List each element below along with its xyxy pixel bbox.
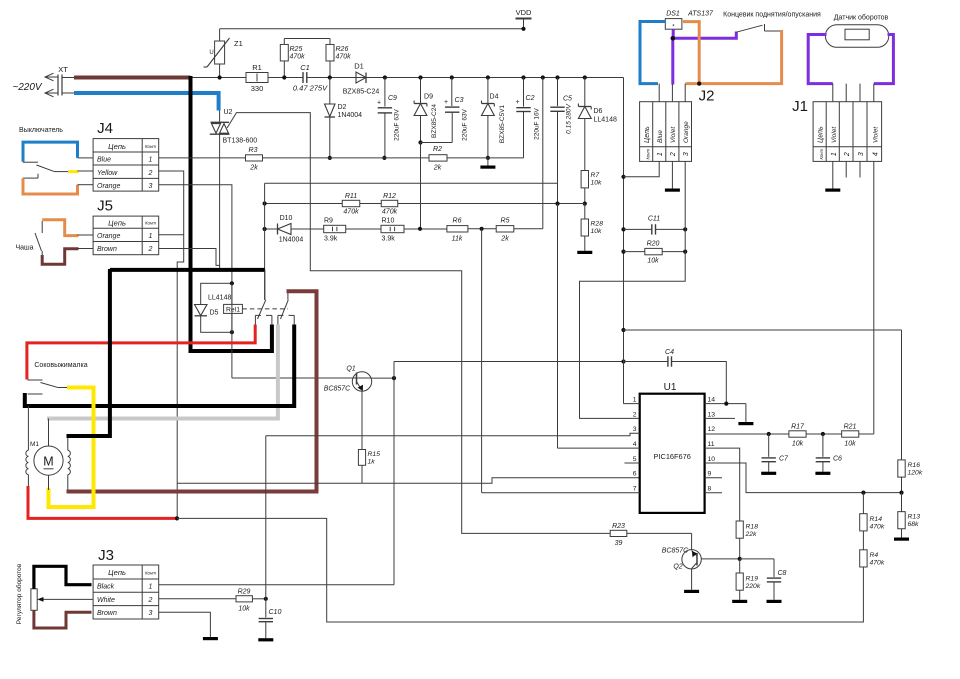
svg-text:10: 10 (708, 456, 716, 463)
diode D5 LL4148 flyback (195, 305, 208, 316)
XT arrow pin 2 (45, 89, 54, 97)
wire J1 pin4 sensor signal down (873, 161, 875, 434)
resistor R2 2k (384, 157, 429, 159)
svg-text:4: 4 (872, 152, 879, 156)
svg-text:R6: R6 (453, 218, 462, 225)
wire mains live brown thick (62, 77, 74, 79)
capacitor C9 220uF 63V (384, 78, 386, 107)
svg-text:R23: R23 (612, 523, 625, 530)
svg-text:3: 3 (149, 610, 153, 617)
wire start winding bottom to red node (27, 475, 29, 487)
wire yellow from main switch (68, 170, 79, 173)
svg-text:Violet: Violet (670, 126, 677, 143)
resistor R6 11k (447, 226, 468, 232)
resistor R21 10k (842, 431, 859, 437)
svg-text:M1: M1 (30, 441, 39, 448)
wire J3 pin3 to ground (159, 612, 211, 637)
wire black pot top to J3 pin1 (34, 566, 92, 589)
svg-text:Чаша: Чаша (15, 244, 33, 251)
relay contact 2 lever (281, 300, 289, 319)
svg-text:R18: R18 (746, 524, 759, 531)
svg-text:Orange: Orange (683, 121, 690, 143)
wire VDD rail down to PIC pin1 (623, 78, 625, 404)
svg-text:XT: XT (58, 65, 68, 74)
svg-text:470k: 470k (382, 209, 398, 216)
main switch poles (23, 161, 38, 163)
capacitor C4 (624, 361, 668, 363)
svg-text:10k: 10k (844, 441, 856, 448)
wire start winding top to juicer black net (27, 406, 29, 450)
svg-text:LL4148: LL4148 (594, 117, 617, 124)
svg-text:C9: C9 (388, 95, 397, 102)
svg-text:7: 7 (633, 486, 637, 493)
svg-text:1k: 1k (368, 459, 376, 466)
svg-text:C10: C10 (269, 609, 282, 616)
svg-text:R5: R5 (501, 218, 510, 225)
capacitor C8 (740, 558, 774, 560)
svg-text:Blue: Blue (657, 130, 664, 143)
wire Q1 node down to J3 pin1 (393, 378, 395, 585)
wire gate sense rail (265, 228, 278, 230)
svg-text:Регулятор оборотов: Регулятор оборотов (15, 563, 23, 624)
transistor Q1 BC857C (352, 372, 371, 391)
wire blue DS1 to J2 pin1 (640, 22, 665, 84)
svg-text:U: U (209, 50, 213, 56)
svg-text:Orange: Orange (97, 183, 120, 190)
wire maroon relay to motor run coil (67, 291, 317, 491)
U1 pin 12 wire to filter (705, 433, 789, 435)
svg-text:Q1: Q1 (346, 366, 355, 373)
relay contact 1 lever (258, 300, 266, 319)
capacitor C2 220uF 16V (521, 75, 525, 79)
wire network left rail down to mains (264, 183, 266, 300)
svg-text:14: 14 (708, 397, 716, 404)
motor start winding coil (26, 450, 29, 474)
wire orange DS1 to node (683, 22, 699, 85)
wire Q1 emitter to R15 (361, 391, 363, 449)
svg-text:Black: Black (97, 584, 115, 591)
wire J1 pin1 to ground (832, 161, 834, 188)
svg-text:R17: R17 (791, 424, 805, 431)
wire Q1 collector to node (372, 377, 394, 379)
U1 pin 1 wire from VDD rail (624, 403, 640, 405)
svg-text:3: 3 (683, 152, 690, 156)
wire pin3 sense line down (265, 436, 267, 599)
svg-text:Violet: Violet (831, 126, 838, 143)
svg-text:R7: R7 (591, 172, 600, 179)
svg-text:0.47 275V: 0.47 275V (293, 84, 328, 93)
wire run winding top stub (67, 436, 69, 450)
svg-text:1: 1 (831, 152, 838, 156)
wire gray relay to motor rotor (47, 325, 278, 419)
svg-text:D2: D2 (338, 104, 347, 111)
resistor R25 470k (280, 44, 288, 61)
svg-text:Rel1: Rel1 (226, 306, 240, 313)
resistor R14 470k (861, 491, 865, 495)
svg-text:2: 2 (148, 246, 153, 253)
wire U2 gate to driver network (227, 113, 610, 534)
svg-text:11k: 11k (452, 236, 463, 243)
svg-text:VDD: VDD (516, 8, 532, 17)
capacitor C11 (624, 228, 652, 230)
svg-text:1: 1 (149, 157, 153, 164)
svg-text:R10: R10 (382, 218, 395, 225)
wire thick black mains relay feed (110, 268, 265, 272)
wire J2 pin1 to VDD rail (624, 161, 660, 176)
svg-text:D5: D5 (210, 310, 219, 317)
svg-text:D4: D4 (490, 94, 499, 101)
svg-text:10k: 10k (238, 606, 250, 613)
resistor R29 10k (236, 596, 252, 602)
svg-text:+: + (444, 99, 448, 106)
svg-text:6: 6 (633, 471, 637, 478)
bowl switch lever (35, 233, 42, 251)
resistor R13 68k (901, 493, 903, 512)
svg-text:Соковыжималка: Соковыжималка (34, 362, 87, 369)
XT arrow pin 1 (45, 73, 54, 81)
svg-text:2: 2 (148, 597, 153, 604)
U1 pin 8 stub (705, 492, 722, 494)
svg-text:C11: C11 (648, 216, 660, 223)
svg-text:+: + (515, 99, 519, 106)
U1 pin 14 wire to ground (705, 403, 746, 405)
relay contact 2 seats (278, 314, 284, 316)
J1 pin2 pin3 stubs above (845, 84, 847, 102)
resistor R9 3.9k (324, 225, 346, 232)
wire violet DS1 to J2 pin2 (672, 29, 675, 38)
svg-text:BZX85-C5V1: BZX85-C5V1 (499, 104, 506, 143)
resistor R1 330 (246, 73, 268, 83)
J1 pin2 pin3 stubs below (845, 161, 847, 177)
svg-text:C2: C2 (526, 95, 535, 102)
U1 pin 11 wire to R18 (705, 448, 740, 521)
capacitor C6 (822, 434, 824, 457)
wire run winding bottom to maroon (67, 475, 69, 490)
svg-text:C7: C7 (779, 456, 789, 463)
capacitor C5 0.15 280V (555, 75, 559, 79)
svg-text:R2: R2 (433, 146, 442, 153)
resistor R4 470k (862, 531, 864, 550)
wire violet DS1 to limit switch (673, 32, 737, 39)
svg-text:12: 12 (708, 426, 716, 433)
svg-text:470k: 470k (870, 560, 885, 567)
resistor R20 10k (624, 251, 645, 253)
wire main dc line (268, 77, 303, 79)
U1 pin 9 stub (705, 477, 722, 479)
svg-text:68k: 68k (908, 521, 920, 528)
zener D9 BZX85-C24 (418, 75, 422, 79)
svg-text:470k: 470k (870, 524, 885, 531)
svg-text:220uF 16V: 220uF 16V (534, 107, 541, 139)
svg-text:BC857C: BC857C (662, 548, 689, 555)
ground below D4 (487, 158, 489, 166)
speed sensor body (825, 25, 888, 48)
svg-text:330: 330 (251, 84, 264, 93)
svg-text:220uF 63V: 220uF 63V (462, 108, 469, 140)
svg-text:White: White (97, 597, 115, 604)
wire thick black mains bottom run to relay contact 1 (189, 349, 272, 353)
svg-text:R20: R20 (647, 241, 660, 248)
U1 pin 13 stub (705, 417, 735, 419)
svg-text:C3: C3 (455, 97, 464, 104)
svg-text:Violet: Violet (872, 126, 879, 143)
resistor R11 470k (342, 200, 360, 206)
svg-text:R15: R15 (368, 451, 381, 458)
wire bridge over C1 (284, 38, 330, 40)
svg-text:R25: R25 (290, 46, 303, 53)
wire violet sensor right to J1 pin4 (874, 35, 894, 84)
transistor Q2 BC857C (691, 533, 693, 549)
svg-text:0.15 280V: 0.15 280V (566, 104, 573, 134)
svg-text:C8: C8 (778, 570, 787, 577)
svg-text:PIC16F676: PIC16F676 (654, 452, 691, 461)
resistor R3 2k (246, 155, 263, 161)
wire VDD top rail (220, 28, 524, 30)
svg-text:DS1: DS1 (666, 11, 680, 18)
svg-text:2k: 2k (433, 165, 442, 172)
resistor R7 10k (581, 171, 588, 188)
bowl switch orange wire (41, 221, 43, 233)
svg-text:1: 1 (149, 584, 153, 591)
svg-text:39: 39 (615, 540, 623, 547)
svg-text:BC857C: BC857C (324, 386, 351, 393)
svg-text:LL4148: LL4148 (208, 295, 231, 302)
svg-text:R12: R12 (383, 193, 396, 200)
svg-text:1N4004: 1N4004 (279, 237, 304, 244)
wire J5 pin1 into yellow net (159, 234, 184, 236)
svg-text:R4: R4 (870, 552, 879, 559)
wire VDD rail to R16 (624, 329, 902, 331)
wire J5 pin2 to U2 MT2 net (159, 249, 220, 266)
svg-text:Цепь: Цепь (108, 568, 126, 577)
svg-text:D10: D10 (280, 215, 293, 222)
wire thick black mains live down from XT junction (189, 76, 193, 351)
svg-text:2: 2 (670, 152, 677, 157)
resistor R18 22k (736, 521, 743, 538)
wire black relay to juicer switch (25, 325, 294, 407)
wire yellow juicer to motor (49, 388, 94, 508)
svg-text:Blue: Blue (97, 157, 111, 164)
wire U2 MT2 down to mains black (219, 134, 221, 272)
svg-text:Цепь: Цепь (644, 126, 651, 143)
wire thick black mains to run winding (67, 269, 110, 436)
svg-text:J1: J1 (792, 98, 808, 115)
limit switch lever (736, 25, 762, 32)
svg-text:3.9k: 3.9k (382, 236, 396, 243)
U1 pin 5 stub (625, 462, 640, 464)
svg-text:3: 3 (858, 152, 865, 156)
svg-text:3: 3 (149, 183, 153, 190)
wire R11 R12 rail (265, 203, 343, 205)
svg-text:C5: C5 (563, 96, 572, 103)
XT connector double bars (57, 75, 59, 96)
svg-text:C1: C1 (300, 63, 310, 72)
resistor R10 3.9k (381, 225, 404, 232)
svg-text:2: 2 (844, 152, 851, 157)
svg-text:R29: R29 (238, 589, 251, 596)
svg-text:3: 3 (633, 426, 637, 433)
wire sense rail upper (265, 182, 558, 184)
svg-text:Датчик оборотов: Датчик оборотов (834, 14, 889, 22)
capacitor C1 0.47 275V (302, 72, 304, 83)
svg-text:Цепь: Цепь (818, 126, 825, 143)
resistor R26 470k (326, 44, 334, 61)
wire Q2 emitter to ground (691, 569, 693, 590)
svg-text:3.9k: 3.9k (324, 236, 338, 243)
capacitor C7 (768, 434, 770, 457)
svg-text:U1: U1 (664, 382, 677, 393)
svg-text:2: 2 (148, 170, 153, 177)
capacitor C3 220uF 63V (450, 75, 454, 79)
svg-text:470k: 470k (290, 54, 306, 61)
wire motor node to divider R4 (177, 518, 863, 622)
svg-text:~220V: ~220V (12, 82, 43, 93)
node main line C9 (383, 75, 387, 79)
svg-text:Конт: Конт (145, 570, 156, 575)
wire J4 pin1 to R3 (159, 157, 246, 159)
svg-text:Orange: Orange (97, 233, 120, 240)
U1 pin 10 wire to divider (705, 463, 902, 493)
triac U2 BT138-600 (219, 111, 221, 123)
svg-text:220k: 220k (745, 583, 761, 590)
svg-text:1: 1 (149, 233, 153, 240)
svg-text:D6: D6 (594, 108, 603, 115)
wire D9 C3 bottom join (421, 142, 453, 144)
svg-text:8: 8 (708, 486, 712, 493)
resistor R17 10k (789, 431, 806, 437)
svg-text:J5: J5 (97, 198, 113, 215)
ground below R28 (584, 236, 586, 251)
wire Q1 line to VDD rail (394, 361, 624, 363)
svg-text:Цепь: Цепь (108, 142, 126, 151)
wire R5 rail up to main line (541, 75, 545, 79)
svg-text:10k: 10k (591, 180, 603, 187)
svg-text:22k: 22k (745, 531, 758, 538)
svg-text:5: 5 (633, 456, 637, 463)
svg-text:Конт: Конт (819, 148, 824, 159)
svg-text:R26: R26 (336, 46, 349, 53)
svg-text:Z1: Z1 (234, 39, 243, 48)
relay dashed actuator link (242, 308, 288, 310)
wire mains live thin continuation (191, 77, 247, 79)
diode D10 1N4004 (277, 224, 279, 235)
zener D6 LL4148 (583, 75, 587, 79)
bowl switch brown wire (41, 251, 43, 256)
svg-text:Brown: Brown (97, 610, 117, 617)
wire D9 down to R9 R10 node (420, 143, 422, 229)
svg-text:2: 2 (633, 411, 637, 418)
wire J4 pin2 yellow net down to J5 pin1 (159, 171, 184, 518)
resistor R5 2k (496, 226, 514, 232)
svg-text:4: 4 (633, 441, 637, 448)
svg-text:J2: J2 (699, 88, 715, 105)
svg-text:2k: 2k (249, 165, 258, 172)
wire J2 pin3 branch to PIC pin2 (683, 227, 687, 231)
svg-text:1: 1 (657, 152, 664, 156)
wire mains neutral blue thick to U2 (62, 92, 74, 94)
svg-text:Концевик поднятия/опускания: Концевик поднятия/опускания (723, 12, 821, 19)
svg-text:10k: 10k (647, 258, 659, 265)
relay contact 1 seats (255, 314, 261, 316)
svg-text:ATS137: ATS137 (687, 11, 714, 18)
wire R15 to PIC pin6 (361, 465, 363, 483)
IC U1 PIC16F676 body (640, 394, 705, 513)
svg-text:10k: 10k (591, 228, 603, 235)
svg-text:Конт: Конт (145, 144, 156, 149)
resistor R19 220k (739, 559, 741, 573)
resistor R28 10k (584, 204, 586, 219)
svg-text:R14: R14 (870, 516, 883, 523)
U1 pin 4 wire (558, 447, 640, 449)
wire J2 pin2 to ground (671, 161, 673, 188)
capacitor C10 (265, 599, 267, 618)
U1 pin 7 wire (482, 492, 640, 494)
svg-text:10k: 10k (792, 441, 804, 448)
svg-text:R16: R16 (908, 462, 921, 469)
svg-text:Конт: Конт (145, 221, 156, 226)
relay coil box (201, 283, 232, 332)
svg-text:120k: 120k (908, 470, 923, 477)
svg-text:Yellow: Yellow (97, 170, 118, 177)
svg-text:Цепь: Цепь (108, 218, 126, 227)
motor run winding coil (68, 450, 71, 474)
resistor R23 39 (610, 530, 627, 536)
svg-text:R1: R1 (252, 63, 262, 72)
svg-text:11: 11 (708, 441, 715, 448)
svg-text:BZX85-C24: BZX85-C24 (431, 104, 438, 138)
svg-text:J3: J3 (98, 547, 114, 564)
svg-text:Q2: Q2 (673, 564, 682, 571)
resistor R15 1k (358, 450, 365, 466)
resistor R12 470k (381, 200, 398, 206)
svg-text:C6: C6 (833, 456, 842, 463)
wire blue to main switch (78, 157, 94, 159)
wire thick black up to relay contact 1 right post (270, 325, 274, 354)
svg-text:470k: 470k (343, 209, 359, 216)
svg-text:BZX85-C24: BZX85-C24 (343, 89, 380, 96)
potentiometer speed regulator (31, 589, 37, 611)
svg-text:M: M (43, 455, 53, 469)
wire orange from main switch (23, 178, 78, 194)
svg-text:2k: 2k (500, 236, 509, 243)
wire relay coil to Q1 base (231, 283, 233, 378)
svg-text:R28: R28 (591, 221, 604, 228)
svg-text:1N4004: 1N4004 (338, 112, 363, 119)
svg-text:470k: 470k (336, 54, 352, 61)
svg-text:J4: J4 (97, 120, 113, 137)
resistor R16 120k (901, 330, 903, 460)
svg-text:13: 13 (708, 411, 716, 418)
svg-text:U2: U2 (224, 109, 233, 116)
juicer switch poles (28, 379, 43, 381)
wire J3 pin1 to Q1 node (159, 584, 394, 586)
svg-text:9: 9 (708, 471, 712, 478)
wire Q1 node up to C4 line (393, 362, 395, 379)
diode D1 BZX85-C24 (356, 72, 366, 83)
svg-text:Brown: Brown (97, 246, 117, 253)
wire brown pot bottom to J3 pin3 (34, 610, 92, 628)
svg-text:R13: R13 (908, 514, 921, 521)
svg-text:1: 1 (633, 397, 637, 404)
relay coil Rel1 (224, 304, 243, 313)
svg-text:R19: R19 (746, 576, 759, 583)
wire orange limit switch to J2 pin3 (686, 30, 782, 84)
svg-text:Выключатель: Выключатель (19, 127, 63, 134)
svg-text:Конт: Конт (646, 148, 651, 159)
svg-text:R11: R11 (345, 193, 357, 200)
wire J4 pin3 down to relay coil (159, 185, 232, 284)
svg-text:D1: D1 (354, 62, 364, 71)
